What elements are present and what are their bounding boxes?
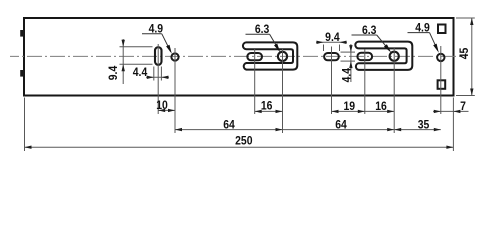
svg-text:16: 16 — [261, 100, 273, 113]
svg-text:4.9: 4.9 — [149, 23, 163, 36]
svg-text:4.4: 4.4 — [133, 66, 148, 79]
svg-text:64: 64 — [335, 119, 347, 132]
svg-text:6.3: 6.3 — [255, 23, 269, 36]
svg-text:19: 19 — [344, 100, 356, 113]
svg-text:7: 7 — [460, 100, 466, 113]
svg-text:10: 10 — [156, 99, 168, 112]
svg-text:9.4: 9.4 — [325, 31, 340, 44]
svg-text:250: 250 — [235, 135, 252, 148]
svg-text:16: 16 — [375, 100, 387, 113]
svg-text:9.4: 9.4 — [107, 65, 120, 80]
svg-text:4.9: 4.9 — [415, 22, 429, 35]
svg-text:45: 45 — [458, 47, 471, 59]
svg-text:6.3: 6.3 — [362, 24, 376, 37]
svg-text:35: 35 — [418, 119, 430, 132]
svg-text:64: 64 — [223, 119, 235, 132]
svg-text:4.4: 4.4 — [341, 67, 354, 82]
